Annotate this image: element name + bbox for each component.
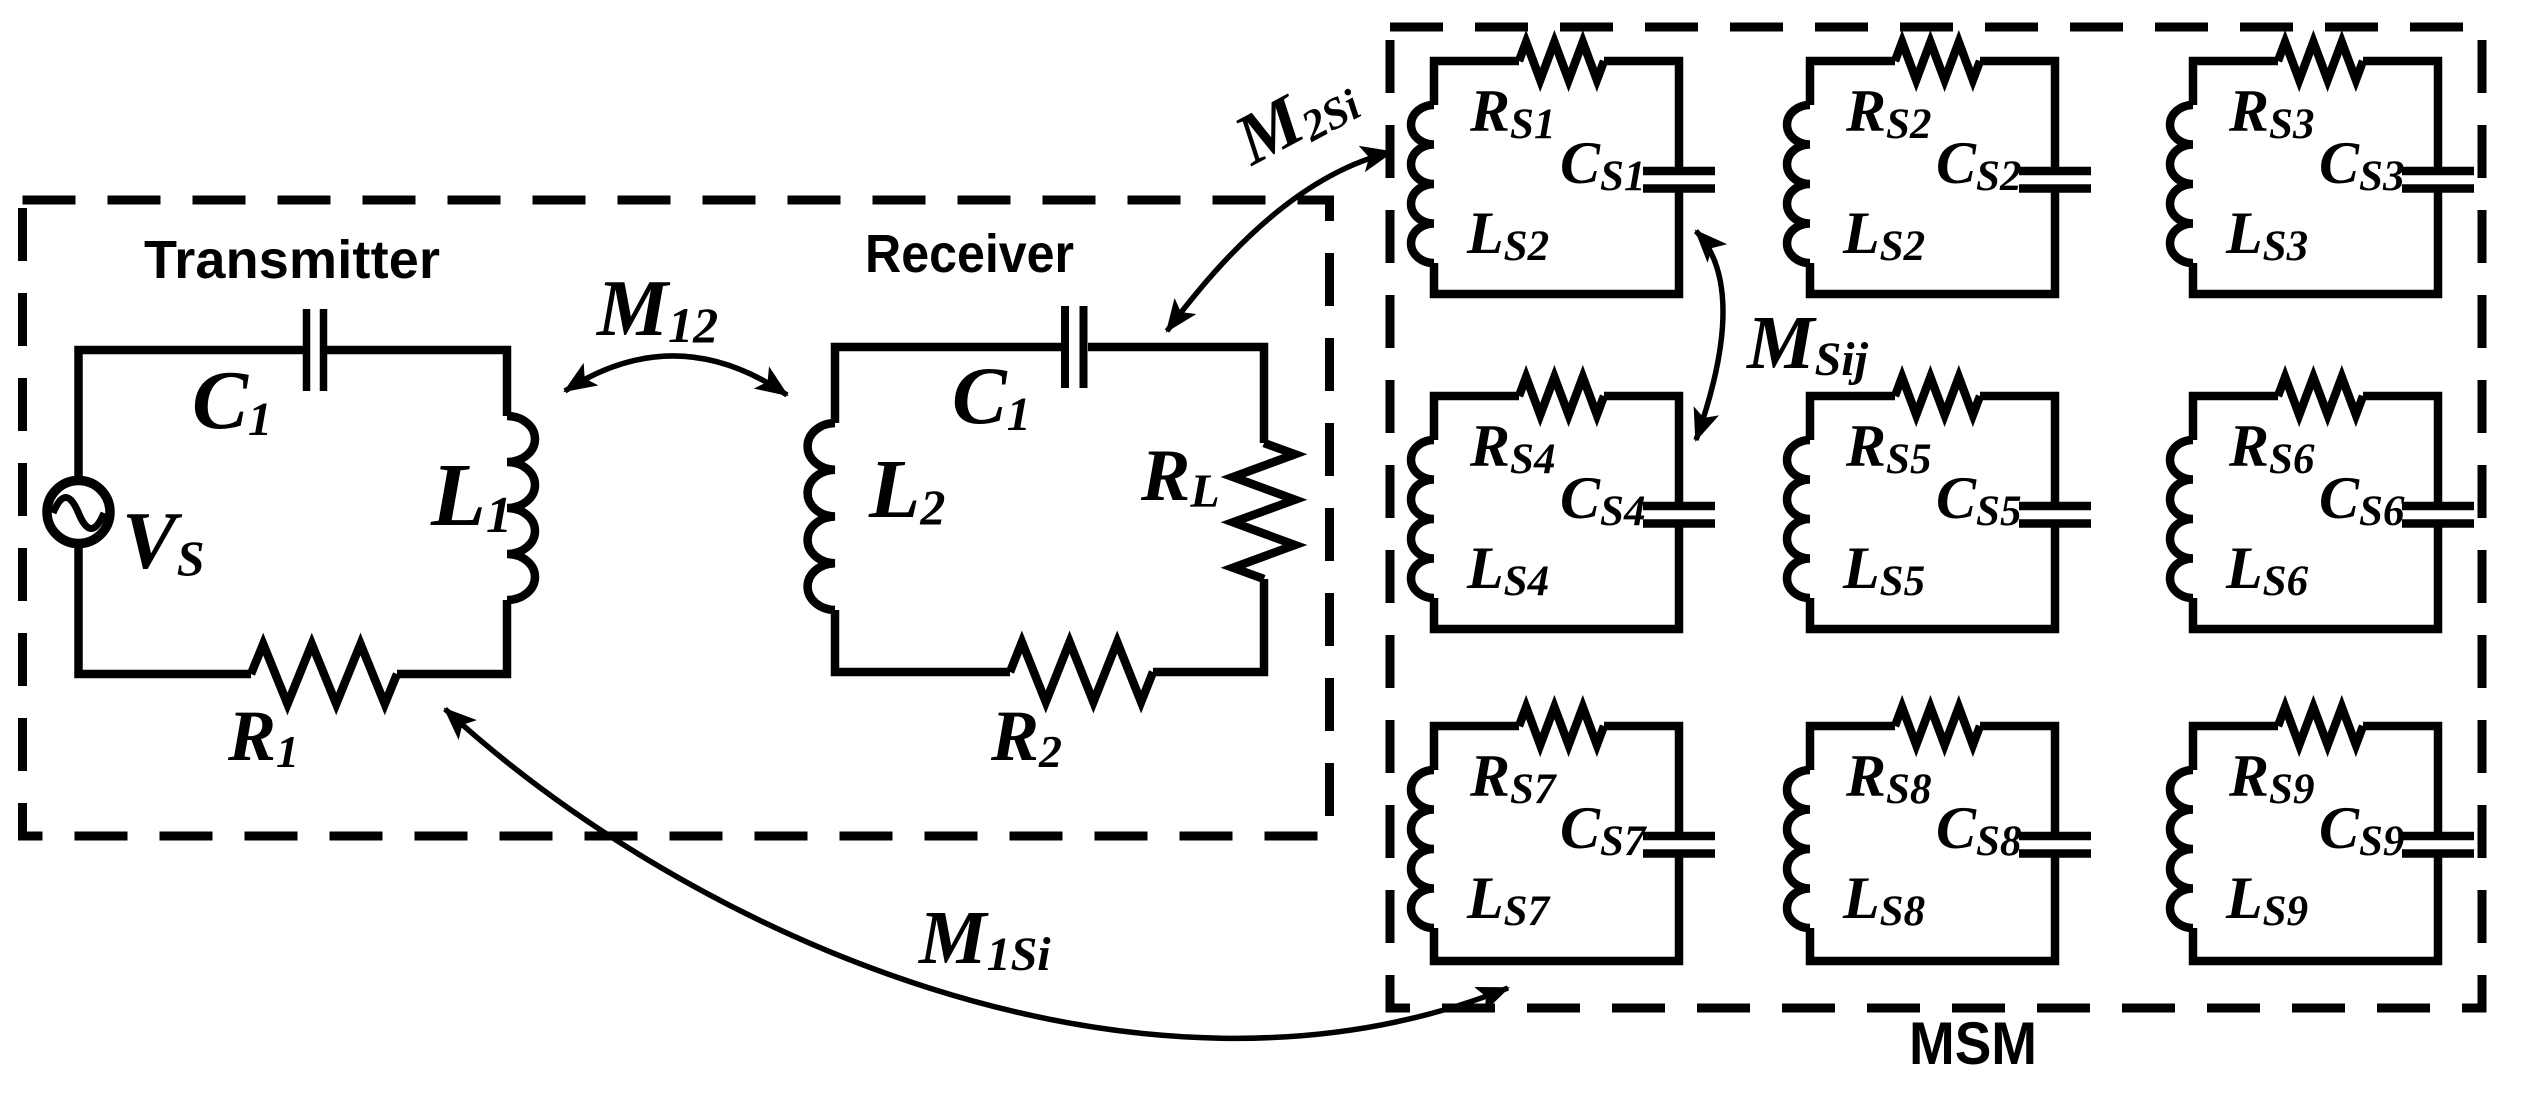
svg-text:MSM: MSM [1909,1010,2037,1077]
resistor RS5 [1895,377,1980,415]
inductor LS7 [1411,770,1434,928]
inductor LS8 [1787,770,1810,928]
resistor RS6 [2278,377,2363,415]
resistor RS1 [1519,42,1604,80]
inductor LS4 [1411,440,1434,598]
MSM cell 3 loop wire [2193,61,2438,294]
resistor RS7 [1519,707,1604,745]
resistor RS4 [1519,377,1604,415]
capacitor CS9 [2402,836,2474,854]
inductor L1 [507,416,535,600]
coupling arrow M2Si [1167,152,1392,331]
svg-text:Receiver: Receiver [865,224,1074,284]
resistor R1 [251,644,397,704]
wire transmitter loop [79,350,508,674]
coupling arrow MSij [1696,231,1723,440]
MSM cell 7 loop wire [1434,726,1679,961]
inductor LS2 [1787,105,1810,263]
capacitor CS1 [1643,171,1715,189]
MSM cell 9 loop wire [2193,726,2438,961]
MSM cell 4 loop wire [1434,396,1679,629]
capacitor CS5 [2019,506,2091,524]
resistor RS3 [2278,42,2363,80]
MSM cell 5 loop wire [1810,396,2055,629]
MSM cell 1 loop wire [1434,61,1679,294]
capacitor CS8 [2019,836,2091,854]
capacitor CS3 [2402,171,2474,189]
capacitor CS7 [1643,836,1715,854]
svg-text:Transmitter: Transmitter [144,230,440,290]
capacitor CS4 [1643,506,1715,524]
resistor RS2 [1895,42,1980,80]
inductor L2 [808,423,835,610]
resistor RS8 [1895,707,1980,745]
resistor RL [1233,443,1295,579]
inductor LS2 [1411,105,1434,263]
transmitter-receiver dashed box [23,200,1330,836]
inductor LS9 [2170,770,2193,928]
AC source VS [47,481,110,544]
wire receiver loop [835,347,1264,672]
capacitor CS2 [2019,171,2091,189]
resistor R2 [1010,642,1153,702]
inductor LS5 [1787,440,1810,598]
capacitor CS6 [2402,506,2474,524]
coupling arrow M1Si [445,709,1508,1038]
MSM cell 6 loop wire [2193,396,2438,629]
capacitor C1 (receiver) [1065,306,1084,388]
MSM cell 2 loop wire [1810,61,2055,294]
capacitor C1 (transmitter) [307,309,324,391]
MSM dashed box [1390,27,2482,1008]
resistor RS9 [2278,707,2363,745]
MSM cell 8 loop wire [1810,726,2055,961]
inductor LS3 [2170,105,2193,263]
coupling arrow M12 [565,356,787,395]
inductor LS6 [2170,440,2193,598]
